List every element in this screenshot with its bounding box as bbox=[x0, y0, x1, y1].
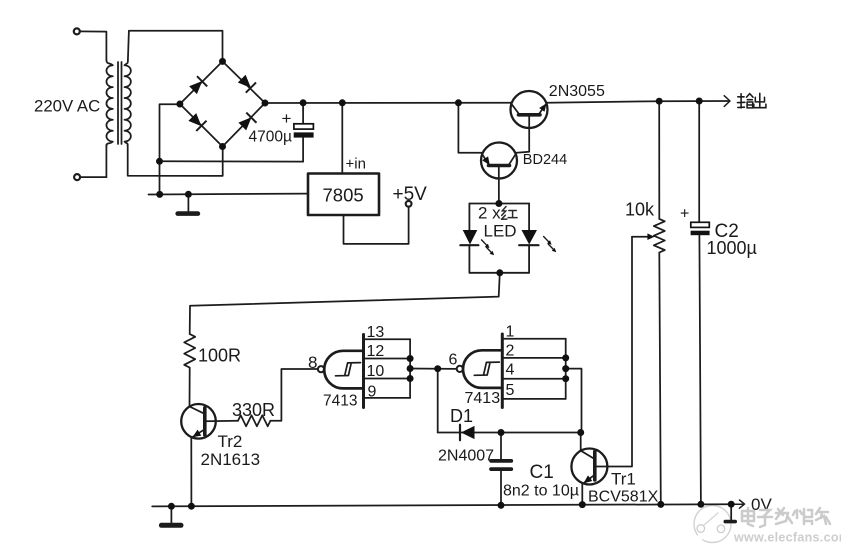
wire D1 node to Tr1 collector bbox=[580, 433, 582, 451]
capacitor C1 bbox=[500, 433, 502, 506]
svg-text:BCV581X: BCV581X bbox=[588, 489, 659, 506]
wire 7805 input drop bbox=[341, 103, 343, 174]
svg-text:2N1613: 2N1613 bbox=[201, 450, 261, 469]
svg-text:D1: D1 bbox=[450, 406, 473, 426]
wire bbox=[80, 176, 106, 178]
wire Tr2 emitter down bbox=[190, 437, 192, 506]
bottom rail bbox=[152, 500, 744, 525]
wire node down to D1 bbox=[437, 369, 439, 433]
svg-text:www.elecfans.com: www.elecfans.com bbox=[733, 531, 841, 545]
wire bbox=[105, 145, 107, 177]
svg-text:8: 8 bbox=[308, 353, 317, 372]
wire return to cap bottom bbox=[160, 160, 304, 162]
svg-text:8n2 to 10µ: 8n2 to 10µ bbox=[503, 483, 579, 500]
op-amp gate U1A 7413 body bbox=[362, 335, 365, 408]
ground rail to 7805 bbox=[149, 193, 309, 196]
transistor Tr2 bbox=[181, 404, 216, 439]
svg-text:BD244: BD244 bbox=[523, 152, 567, 168]
svg-text:2N4007: 2N4007 bbox=[438, 448, 494, 465]
node dots bbox=[156, 58, 735, 510]
svg-text:4: 4 bbox=[506, 362, 515, 379]
svg-text:C1: C1 bbox=[530, 462, 554, 483]
wire Tr1 base to pot wiper bbox=[595, 237, 632, 467]
transformer core bbox=[118, 62, 122, 144]
svg-text:4700µ: 4700µ bbox=[249, 129, 292, 146]
regulator 7805 box bbox=[308, 174, 379, 216]
bridge edge top-left bbox=[180, 61, 223, 104]
watermark text dianzifashaoyou bbox=[742, 508, 830, 527]
wire BD244 base down to LED block bbox=[498, 166, 500, 204]
wire 100R to Tr2 bbox=[189, 368, 191, 407]
ground symbol bottom-left bbox=[170, 506, 172, 523]
potentiometer wiper arrow bbox=[632, 236, 650, 238]
gate U1B pin 2 line bbox=[502, 357, 565, 359]
transistor BD244 bbox=[481, 143, 517, 179]
diode D1 bbox=[459, 425, 461, 441]
gate U1B pin 5 line bbox=[502, 398, 565, 400]
LED block frame bbox=[469, 204, 529, 273]
bridge diode top-left bbox=[189, 81, 202, 94]
capacitor C2 plates bbox=[691, 222, 710, 235]
wire bridge left to return bbox=[160, 104, 180, 194]
svg-text:1: 1 bbox=[506, 323, 515, 340]
svg-text:+: + bbox=[680, 206, 689, 223]
gate U1B pin 1 line bbox=[502, 338, 565, 340]
gate U1A pin 10 line bbox=[364, 378, 411, 380]
svg-text:5: 5 bbox=[506, 382, 515, 399]
LED left bbox=[463, 230, 478, 245]
wire node to gate U1B output bbox=[438, 368, 457, 370]
watermark logo bbox=[694, 506, 731, 543]
transistor Tr1 bbox=[571, 449, 607, 485]
wire 7805 output to +5V terminal bbox=[344, 207, 409, 244]
svg-text:+in: +in bbox=[346, 156, 366, 173]
bridge diode bottom-right bbox=[238, 117, 251, 130]
bridge edge bottom-right bbox=[223, 103, 266, 147]
wire gate U1A tap to node bbox=[410, 368, 438, 370]
svg-text:330R: 330R bbox=[232, 400, 275, 420]
svg-text:Tr1: Tr1 bbox=[611, 470, 636, 489]
label shuchu (output) bbox=[737, 93, 766, 108]
transformer primary winding bbox=[106, 60, 112, 146]
capacitor 4700u plates bbox=[294, 124, 314, 138]
gate U1A pin 12 line bbox=[364, 358, 411, 360]
svg-text:7413: 7413 bbox=[465, 390, 501, 407]
input terminal bottom bbox=[74, 174, 80, 180]
0V arrow bbox=[733, 500, 745, 508]
bridge edge top-right bbox=[223, 61, 266, 103]
resistor 100R bbox=[184, 334, 195, 368]
transistor Q 2N3055 bbox=[511, 91, 548, 128]
svg-text:9: 9 bbox=[368, 384, 377, 401]
gate U1B input tie wire bbox=[565, 339, 567, 399]
svg-text:13: 13 bbox=[367, 324, 385, 341]
wire Tr2 base bbox=[205, 420, 238, 422]
gate U1A input tie wire bbox=[409, 339, 411, 398]
bridge diode bottom-left bbox=[188, 113, 201, 126]
svg-text:12: 12 bbox=[367, 343, 385, 360]
svg-text:Tr2: Tr2 bbox=[218, 432, 243, 451]
svg-text:+5V: +5V bbox=[393, 184, 428, 205]
ground symbol left bbox=[187, 194, 189, 211]
capacitor 4700u wires bbox=[302, 103, 304, 162]
wire Tr1 emitter down bbox=[581, 484, 583, 505]
input terminal top bbox=[74, 28, 80, 34]
svg-text:10: 10 bbox=[367, 363, 385, 380]
wire secondary top to bridge bbox=[128, 31, 223, 62]
gate U1A pin 13 line bbox=[364, 338, 411, 340]
LED right bbox=[522, 230, 538, 245]
wire LED bottom to 100R bbox=[190, 273, 500, 334]
bridge diode top-right bbox=[238, 75, 251, 88]
main positive rail bbox=[265, 101, 730, 103]
transformer secondary winding bbox=[125, 60, 131, 146]
wire gate U1B tap to feedback bbox=[566, 369, 582, 433]
svg-text:+: + bbox=[282, 109, 292, 128]
svg-text:7805: 7805 bbox=[323, 185, 364, 206]
wire 330R to gate 1 bbox=[270, 369, 317, 421]
svg-text:2: 2 bbox=[506, 343, 515, 360]
capacitor C2 wires bbox=[699, 101, 701, 504]
diode D1 wire bbox=[438, 432, 581, 434]
svg-text:LED: LED bbox=[484, 222, 517, 241]
gate U1B pin 4 line bbox=[502, 378, 565, 380]
gate U1A pin 9 line bbox=[364, 397, 411, 399]
svg-text:10k: 10k bbox=[625, 200, 655, 220]
svg-text:100R: 100R bbox=[198, 346, 241, 366]
+5V terminal bbox=[406, 201, 412, 207]
svg-text:220V AC: 220V AC bbox=[34, 97, 100, 116]
ground symbol right bbox=[730, 504, 732, 519]
potentiometer 10k bbox=[658, 101, 660, 219]
bridge edge bottom-left bbox=[180, 104, 223, 147]
svg-text:7413: 7413 bbox=[323, 393, 357, 410]
svg-text:6: 6 bbox=[449, 352, 458, 369]
output arrow bbox=[724, 96, 730, 107]
op-amp gate U1B 7413 body bbox=[501, 334, 504, 408]
wire rail to BD244 emitter bbox=[458, 103, 481, 153]
resistor 330R bbox=[238, 415, 270, 426]
svg-text:1000µ: 1000µ bbox=[707, 238, 757, 258]
wire bbox=[80, 31, 106, 60]
wire secondary bottom to bridge bbox=[128, 145, 223, 176]
glyph hong (red) bbox=[502, 207, 518, 220]
wire 2N3055 base down bbox=[517, 115, 530, 153]
svg-text:2N3055: 2N3055 bbox=[549, 83, 605, 100]
